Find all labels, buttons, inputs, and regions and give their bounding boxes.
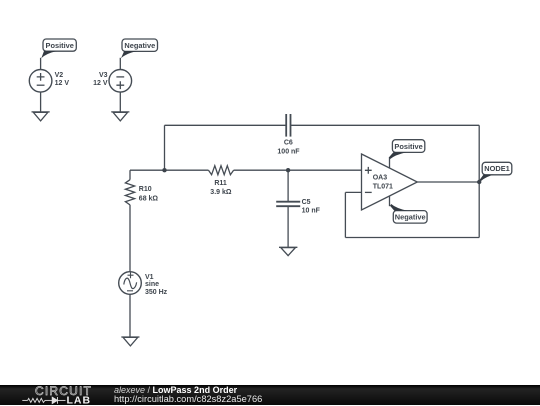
svg-text:3.9 kΩ: 3.9 kΩ — [210, 189, 232, 196]
label C5 value — [302, 199, 321, 215]
flag Negative (OA3) — [390, 204, 427, 223]
wire main rail right — [234, 169, 362, 171]
ground (V2) — [32, 112, 50, 121]
svg-text:Negative: Negative — [395, 213, 426, 222]
node junction dot B — [286, 168, 290, 172]
wire output vertical — [478, 125, 480, 237]
svg-text:100 nF: 100 nF — [277, 149, 300, 156]
wire feedback bottom — [345, 237, 479, 239]
label R10 value — [139, 186, 159, 202]
label R11 value — [210, 180, 232, 196]
label V3 value — [93, 72, 108, 87]
ground (C5) — [279, 247, 297, 255]
footer title text — [114, 386, 262, 405]
flag NODE1 — [480, 162, 512, 181]
svg-text:NODE1: NODE1 — [484, 164, 509, 173]
CircuitLab logo — [0, 385, 135, 406]
node junction dot A — [162, 168, 166, 172]
wire feedback left vertical — [344, 192, 346, 237]
op-amp OA3 — [362, 154, 418, 210]
svg-text:OA3: OA3 — [373, 175, 388, 182]
svg-text:68 kΩ: 68 kΩ — [139, 196, 159, 203]
wire output — [417, 181, 479, 183]
resistor R10 — [125, 170, 134, 272]
svg-text:LAB: LAB — [67, 394, 92, 406]
ground (V3) — [111, 112, 129, 121]
svg-text:R10: R10 — [139, 186, 152, 193]
voltage source V2 — [29, 58, 52, 112]
wire top rail right — [291, 124, 480, 126]
svg-text:350 Hz: 350 Hz — [145, 289, 168, 296]
svg-text:V1: V1 — [145, 274, 154, 281]
capacitor C5 — [276, 170, 300, 247]
label V2 value — [55, 72, 70, 87]
node junction dot output — [477, 180, 481, 184]
svg-text:12 V: 12 V — [55, 80, 70, 87]
resistor R11 — [209, 166, 234, 175]
svg-text:12 V: 12 V — [93, 80, 108, 87]
svg-text:V2: V2 — [55, 72, 64, 79]
footer bar — [0, 385, 540, 406]
label C6 value — [277, 140, 300, 156]
svg-text:C6: C6 — [284, 140, 293, 147]
flag Positive (OA3) — [389, 140, 425, 159]
flag Positive (V2) — [41, 39, 76, 58]
svg-text:V3: V3 — [99, 72, 108, 79]
svg-text:TL071: TL071 — [373, 184, 393, 191]
voltage source V1 — [119, 272, 142, 337]
capacitor C6 — [286, 114, 290, 137]
svg-text:R11: R11 — [214, 180, 227, 187]
label V1 value — [145, 274, 168, 296]
wire top rail left — [165, 124, 287, 126]
svg-text:C5: C5 — [302, 199, 311, 206]
wire node A vertical — [164, 125, 166, 170]
svg-text:Negative: Negative — [124, 41, 155, 50]
wire main rail left — [130, 169, 209, 171]
ground (V1) — [121, 337, 139, 346]
svg-text:Positive: Positive — [46, 41, 74, 50]
wire inverting input — [345, 191, 361, 193]
svg-text:sine: sine — [145, 281, 159, 288]
flag Negative (V3) — [121, 39, 158, 58]
svg-text:10 nF: 10 nF — [302, 208, 321, 215]
voltage source V3 — [109, 58, 132, 112]
svg-text:Positive: Positive — [394, 142, 422, 151]
label OA3 TL071 — [373, 175, 393, 191]
